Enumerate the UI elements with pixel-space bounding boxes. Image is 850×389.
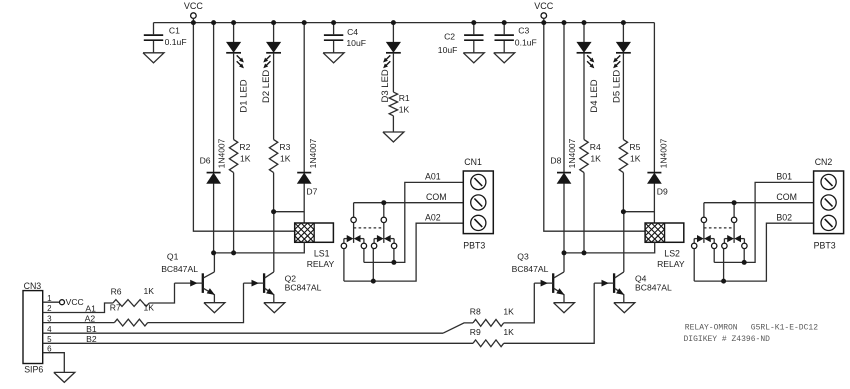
svg-text:RELAY-OMRON: RELAY-OMRON <box>685 324 738 333</box>
wire VCC to LS1 coil <box>193 23 294 232</box>
svg-text:R1: R1 <box>399 93 410 103</box>
ground below R1 <box>383 116 404 142</box>
capacitor C3 <box>494 23 537 63</box>
connector CN2 PBT3 <box>776 157 843 251</box>
note relay part numbers <box>684 324 819 344</box>
wire A02 <box>344 223 463 281</box>
svg-text:PBT3: PBT3 <box>814 241 836 251</box>
svg-text:1N4007: 1N4007 <box>658 138 668 168</box>
svg-text:1K: 1K <box>144 302 155 312</box>
svg-text:4: 4 <box>47 325 52 334</box>
svg-text:1N4007: 1N4007 <box>217 138 227 168</box>
svg-text:B02: B02 <box>776 213 792 223</box>
svg-text:D1 LED: D1 LED <box>239 79 250 112</box>
relay contacts LS1 <box>341 203 397 249</box>
svg-text:C4: C4 <box>347 27 358 37</box>
svg-text:0.1uF: 0.1uF <box>515 37 537 47</box>
ground Q3 <box>554 303 575 313</box>
LED D5 <box>611 23 630 140</box>
svg-text:A01: A01 <box>425 172 441 182</box>
svg-text:10uF: 10uF <box>438 45 458 55</box>
wire D7 branch <box>303 23 305 223</box>
diode D7 1N4007 <box>297 138 318 196</box>
wire D6 branch <box>213 23 215 253</box>
wire A1 <box>43 303 113 313</box>
svg-text:1K: 1K <box>630 154 641 164</box>
resistor R8 <box>470 307 514 327</box>
resistor R4 <box>580 140 601 253</box>
svg-text:1K: 1K <box>280 154 291 164</box>
svg-text:BC847AL: BC847AL <box>512 264 549 274</box>
svg-text:CN3: CN3 <box>24 281 42 291</box>
svg-text:1K: 1K <box>144 286 155 296</box>
capacitor C2 <box>438 23 485 63</box>
relay coil LS2 <box>645 223 685 269</box>
wire D8 branch <box>563 23 565 253</box>
svg-text:RELAY: RELAY <box>657 259 685 269</box>
svg-text:G5RL-K1-E-DC12: G5RL-K1-E-DC12 <box>751 324 818 333</box>
wire B2 <box>43 334 473 344</box>
svg-text:1K: 1K <box>399 105 410 115</box>
svg-text:RELAY: RELAY <box>307 259 335 269</box>
resistor R5 <box>619 140 641 212</box>
svg-text:C3: C3 <box>518 25 529 35</box>
svg-text:A02: A02 <box>425 213 441 223</box>
svg-text:PBT3: PBT3 <box>463 241 485 251</box>
wire D9 branch <box>653 23 655 223</box>
svg-text:C2: C2 <box>444 32 455 42</box>
relay coil LS1 <box>295 223 335 269</box>
svg-text:10uF: 10uF <box>346 38 366 48</box>
svg-text:Q1: Q1 <box>167 251 179 261</box>
svg-text:COM: COM <box>776 192 797 202</box>
svg-text:R5: R5 <box>629 142 640 152</box>
wire COM B <box>704 202 814 204</box>
diode D8 1N4007 <box>550 138 577 183</box>
connector CN3 SIP6 <box>23 281 52 375</box>
diode D9 1N4007 <box>647 138 668 196</box>
LED D3 <box>380 23 401 103</box>
svg-text:SIP6: SIP6 <box>24 365 43 375</box>
capacitor C4 <box>323 23 366 63</box>
svg-text:D7: D7 <box>306 186 317 196</box>
LED D1 <box>226 23 249 140</box>
ground CN3 pin 6 <box>54 372 75 382</box>
wire VCC top rail <box>154 22 655 24</box>
svg-text:R7: R7 <box>110 302 121 312</box>
connector CN1 PBT3 <box>425 157 493 251</box>
svg-text:1K: 1K <box>590 154 601 164</box>
svg-text:6: 6 <box>47 344 52 353</box>
svg-text:LS1: LS1 <box>314 248 330 258</box>
svg-text:CN1: CN1 <box>464 157 482 167</box>
wire R7 to Q2 base <box>148 283 244 323</box>
svg-text:A2: A2 <box>85 314 96 324</box>
svg-text:VCC: VCC <box>534 1 554 11</box>
wire A01 <box>364 182 463 262</box>
resistor R9 <box>470 327 514 347</box>
svg-text:R3: R3 <box>279 142 290 152</box>
wire R9 to Q4 base <box>504 283 595 343</box>
wire R5 to D9 node <box>623 211 654 213</box>
ground Q1 <box>204 303 225 313</box>
svg-text:R9: R9 <box>470 327 481 337</box>
svg-text:3: 3 <box>47 314 52 323</box>
wire VCC to LS2 coil <box>544 23 645 232</box>
svg-text:DIGIKEY # Z4396-ND: DIGIKEY # Z4396-ND <box>684 335 771 344</box>
wire B01 <box>714 182 813 262</box>
diode D6 1N4007 <box>200 138 227 183</box>
pin 1 VCC stub <box>43 297 84 307</box>
wire R3 to D7 node <box>274 211 305 213</box>
wire COM A <box>354 202 464 204</box>
svg-text:R4: R4 <box>590 142 601 152</box>
svg-text:Q3: Q3 <box>517 251 529 261</box>
svg-text:D5 LED: D5 LED <box>611 70 622 103</box>
svg-text:VCC: VCC <box>66 297 84 307</box>
transistor Q1 BC847AL <box>161 251 214 302</box>
svg-text:1: 1 <box>47 294 52 303</box>
svg-text:B2: B2 <box>86 334 97 344</box>
svg-text:BC847AL: BC847AL <box>161 264 198 274</box>
svg-text:BC847AL: BC847AL <box>635 283 672 293</box>
resistor R2 <box>229 140 250 253</box>
svg-text:D6: D6 <box>200 155 211 165</box>
capacitor C1 <box>143 23 187 63</box>
transistor Q3 BC847AL <box>512 251 564 302</box>
svg-text:R8: R8 <box>470 307 481 317</box>
svg-text:VCC: VCC <box>184 1 204 11</box>
wire R8 to Q3 base <box>504 283 535 323</box>
ground Q4 <box>614 303 635 313</box>
resistor R7 <box>110 302 154 326</box>
svg-text:1K: 1K <box>503 307 514 317</box>
svg-text:BC847AL: BC847AL <box>285 283 322 293</box>
pin 6 ground wire <box>43 353 65 373</box>
wire LS1 coil bottom <box>214 242 305 253</box>
ground Q2 <box>264 303 285 313</box>
svg-text:COM: COM <box>426 192 447 202</box>
svg-text:1K: 1K <box>240 154 251 164</box>
svg-text:D8: D8 <box>550 155 561 165</box>
transistor Q4 BC847AL <box>594 212 672 303</box>
resistor R3 <box>269 140 290 212</box>
svg-text:CN2: CN2 <box>815 157 833 167</box>
svg-text:R2: R2 <box>239 142 250 152</box>
svg-text:A1: A1 <box>85 303 96 313</box>
wire B1 <box>43 323 473 334</box>
wire A2 <box>43 314 115 324</box>
svg-text:D9: D9 <box>657 186 668 196</box>
svg-text:1K: 1K <box>503 327 514 337</box>
transistor Q2 BC847AL <box>244 212 322 303</box>
relay contacts LS2 <box>692 203 748 249</box>
wire R6 to Q1 base <box>149 283 174 303</box>
svg-text:D2 LED: D2 LED <box>261 70 272 103</box>
LED D2 <box>261 23 281 140</box>
svg-text:B1: B1 <box>86 324 97 334</box>
resistor R1 <box>389 92 410 116</box>
svg-text:C1: C1 <box>169 26 180 36</box>
svg-text:D4 LED: D4 LED <box>589 79 600 112</box>
wire B02 <box>694 223 813 281</box>
svg-text:R6: R6 <box>111 286 122 296</box>
svg-text:1N4007: 1N4007 <box>308 138 318 168</box>
svg-text:1N4007: 1N4007 <box>567 138 577 168</box>
VCC terminal 1 <box>184 1 204 23</box>
LED D4 <box>577 23 600 140</box>
wire LS2 coil bottom <box>564 242 655 253</box>
resistor R6 <box>111 286 155 306</box>
svg-text:LS2: LS2 <box>664 248 680 258</box>
VCC terminal 2 <box>534 1 554 23</box>
svg-text:B01: B01 <box>776 172 792 182</box>
svg-text:0.1uF: 0.1uF <box>165 37 187 47</box>
